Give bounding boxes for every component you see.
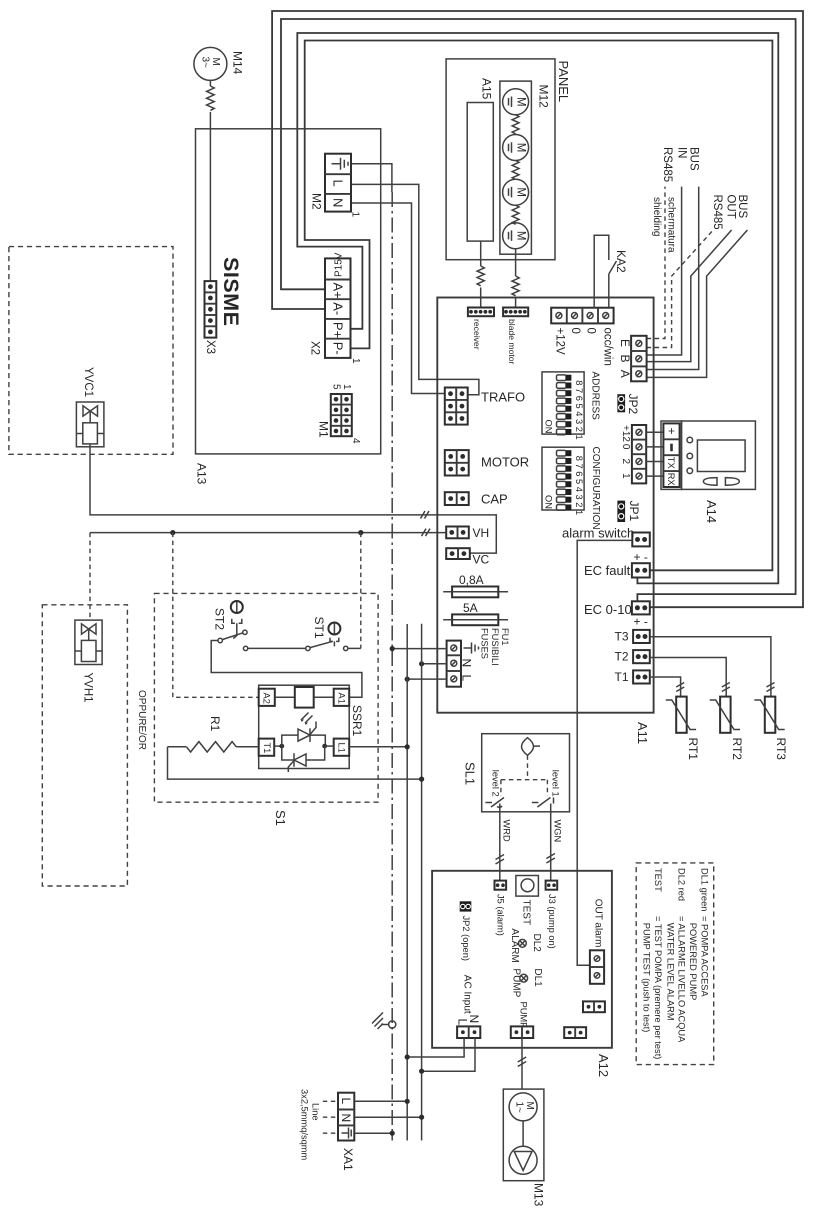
svg-text:level 1: level 1 — [550, 770, 560, 797]
junction node ST right — [358, 530, 363, 535]
solenoid valve YVH1 — [75, 620, 102, 664]
wires +12 0 2 1 to A14 — [646, 432, 663, 476]
break marks RT3 — [767, 683, 775, 692]
svg-text:M: M — [515, 143, 527, 153]
wire — [515, 298, 517, 308]
svg-text:3: 3 — [574, 419, 584, 424]
svg-text:SL1: SL1 — [463, 762, 478, 785]
svg-text:5: 5 — [574, 479, 584, 484]
svg-text:P+: P+ — [331, 322, 346, 338]
junction — [405, 677, 410, 682]
svg-text:J5 (alarm): J5 (alarm) — [495, 894, 505, 936]
triac bridge — [274, 722, 334, 773]
svg-text:DL2: DL2 — [531, 934, 542, 953]
legend line DL1 — [688, 868, 709, 1000]
wire ST2 to ST1 — [248, 647, 306, 649]
svg-text:B: B — [618, 355, 632, 363]
junction — [419, 1069, 424, 1074]
terminal block M2 — [325, 154, 351, 212]
svg-text:= ALLARME LIVELLO ACQUA: = ALLARME LIVELLO ACQUA — [677, 916, 687, 1043]
connector M1 — [331, 394, 352, 436]
wire ST2 pivot to A1 — [211, 641, 362, 698]
svg-text:+12V: +12V — [554, 328, 566, 356]
connector OUT alarm — [590, 950, 604, 984]
svg-text:7: 7 — [574, 388, 584, 393]
connector T1 — [633, 670, 650, 683]
svg-text:M: M — [210, 58, 221, 66]
svg-text:= TEST POMPA (premere per test: = TEST POMPA (premere per test) — [653, 916, 663, 1059]
svg-text:1~: 1~ — [514, 1102, 525, 1114]
connector MOTOR — [445, 450, 469, 475]
svg-text:1: 1 — [620, 473, 631, 479]
label BUS IN RS485 — [661, 147, 699, 182]
svg-text:JP2: JP2 — [626, 394, 640, 415]
svg-text:+: + — [665, 428, 679, 435]
svg-text:DL1: DL1 — [532, 968, 543, 987]
connector X3 — [205, 281, 217, 338]
terminal XA1 — [338, 1093, 354, 1141]
coil on M14 wire — [207, 86, 215, 110]
svg-text:= POMPA ACCESA: = POMPA ACCESA — [699, 916, 709, 997]
motor M14 — [194, 47, 227, 80]
svg-text:OPPURE/OR: OPPURE/OR — [136, 690, 147, 750]
connector +12V 0 0 occ/win — [551, 308, 613, 324]
svg-text:FUSES: FUSES — [480, 628, 490, 659]
board A11 — [437, 298, 653, 713]
wire B to BUS IN — [647, 187, 682, 355]
coil link 1 — [512, 115, 519, 134]
wire N line to N input — [422, 663, 447, 665]
svg-text:P15V: P15V — [334, 252, 345, 277]
solid state relay SSR1 — [259, 685, 350, 768]
svg-text:CAP: CAP — [481, 492, 508, 507]
break marks on VH wire — [422, 529, 431, 537]
break marks WGN — [546, 854, 555, 864]
junction — [419, 777, 424, 782]
wire A to BUS IN — [647, 187, 699, 370]
motor 2 of M12 — [503, 135, 529, 161]
svg-text:ALARM: ALARM — [509, 928, 520, 962]
svg-text:E: E — [618, 339, 632, 347]
jumper JP2 open — [460, 901, 472, 911]
svg-text:EC fault: EC fault — [584, 563, 631, 578]
wire M2 L to TRAFO — [351, 184, 479, 394]
svg-text:VH: VH — [473, 526, 490, 540]
svg-text:L: L — [460, 675, 474, 682]
dashed drop right to ST1 — [360, 533, 362, 649]
connector J5 — [495, 881, 507, 890]
svg-text:RS485: RS485 — [661, 147, 673, 182]
wire XA1 N to N line — [354, 1116, 421, 1118]
pump M13 — [503, 1089, 544, 1181]
svg-text:schermatura: schermatura — [666, 197, 677, 253]
svg-text:JP2 (open): JP2 (open) — [461, 916, 471, 961]
svg-text:PANEL: PANEL — [556, 61, 571, 103]
svg-text:5: 5 — [331, 384, 342, 390]
svg-text:POWERED PUMP: POWERED PUMP — [688, 923, 698, 1000]
svg-text:A13: A13 — [195, 463, 209, 485]
motor 1 of M12 — [503, 89, 529, 115]
motor 3 of M12 — [503, 179, 529, 205]
remote control A14 body — [682, 421, 756, 489]
junction — [419, 661, 424, 666]
svg-text:0: 0 — [620, 444, 631, 450]
svg-text:M14: M14 — [231, 51, 245, 75]
svg-text:1: 1 — [574, 510, 584, 515]
svg-text:RT2: RT2 — [730, 738, 744, 761]
junction — [405, 1099, 410, 1104]
LED DL2 — [519, 939, 527, 947]
svg-text:A1: A1 — [337, 693, 347, 704]
svg-text:ST2: ST2 — [213, 608, 227, 630]
thermostat ST2 — [218, 601, 248, 651]
svg-text:0,8A: 0,8A — [459, 573, 484, 587]
connector E B A — [631, 336, 647, 382]
connector PUMP — [511, 1026, 533, 1038]
svg-text:blade motor: blade motor — [507, 319, 517, 365]
connector receiver — [468, 308, 494, 317]
svg-text:EC 0-10: EC 0-10 — [584, 602, 632, 617]
chassis earth dash-dot line — [391, 192, 393, 1141]
svg-text:T3: T3 — [615, 630, 629, 644]
svg-text:L: L — [331, 180, 346, 187]
svg-text:1: 1 — [574, 435, 584, 440]
wire XA1 earth to chassis — [354, 1132, 392, 1134]
svg-text:MOTOR: MOTOR — [481, 455, 529, 470]
svg-text:BUS: BUS — [688, 147, 700, 171]
svg-text:M: M — [515, 187, 527, 197]
L distribution line — [406, 624, 408, 1141]
svg-text:YVH1: YVH1 — [82, 673, 94, 703]
switch level 1 — [532, 798, 554, 812]
svg-text:PUMP: PUMP — [518, 1002, 528, 1029]
svg-text:occ/win: occ/win — [602, 328, 614, 366]
wire R1 to N line — [168, 747, 422, 779]
wire M12 to blade motor connector — [515, 249, 517, 276]
svg-text:RX: RX — [666, 473, 676, 486]
float symbol — [522, 738, 541, 756]
wire loop X2 A+ to EC 0-10 — [281, 19, 796, 606]
svg-text:3~: 3~ — [200, 57, 211, 69]
chassis ground symbol — [372, 1013, 396, 1030]
label schermatura shielding — [651, 197, 677, 253]
svg-text:4: 4 — [574, 487, 584, 492]
svg-text:A15: A15 — [480, 78, 494, 100]
junction node ST left — [170, 530, 175, 535]
svg-text:BUS: BUS — [736, 195, 748, 219]
junction — [390, 1131, 395, 1136]
svg-text:DL1 green: DL1 green — [699, 868, 709, 911]
junction — [405, 1054, 410, 1059]
wire PUMP to M13 — [521, 1038, 523, 1089]
svg-text:3x2,5mmq/sqmm: 3x2,5mmq/sqmm — [299, 1089, 309, 1161]
connector J3 — [546, 881, 558, 890]
svg-text:6: 6 — [574, 396, 584, 401]
wire loop X2 P- to EC fault — [305, 41, 773, 571]
coil link 2 — [512, 161, 519, 180]
dashed drop to YVH1 — [89, 533, 91, 621]
svg-text:WRD: WRD — [501, 820, 511, 842]
svg-text:L: L — [339, 1098, 353, 1105]
svg-text:5: 5 — [574, 404, 584, 409]
terminal T1 — [259, 739, 275, 756]
switch level 2 — [485, 798, 504, 812]
wire M2 earth to chassis line — [351, 164, 392, 192]
resistor R1 — [168, 742, 259, 752]
wire A to BUS OUT — [647, 230, 748, 377]
board A13 — [196, 129, 381, 454]
svg-text:6: 6 — [574, 471, 584, 476]
wire N line to AC input N — [422, 1038, 475, 1071]
svg-text:A: A — [618, 370, 632, 378]
wire L line to L input — [407, 678, 446, 680]
svg-text:+ -: + - — [634, 550, 648, 564]
relay box S1 dashed — [154, 593, 378, 802]
legend line TEST — [642, 868, 663, 1059]
solenoid valve YVC1 — [76, 402, 104, 447]
connector VC — [446, 548, 470, 559]
dip switch ADDRESS — [542, 372, 584, 440]
svg-text:M2: M2 — [310, 193, 324, 210]
svg-text:PUMP TEST (push to test): PUMP TEST (push to test) — [642, 923, 652, 1033]
valve YVH1 dashed enclosure — [42, 605, 127, 886]
connector T3 — [633, 630, 650, 643]
panel box — [446, 59, 555, 260]
svg-text:1: 1 — [341, 384, 352, 390]
svg-text:2: 2 — [574, 427, 584, 432]
dashed float linkage — [501, 755, 548, 796]
svg-text:2: 2 — [620, 459, 631, 465]
wire E to BUS OUT shield (dashed) — [647, 230, 714, 348]
svg-text:level 2: level 2 — [490, 770, 500, 797]
svg-text:AC Input: AC Input — [461, 975, 472, 1014]
svg-text:M1: M1 — [317, 421, 331, 438]
wire L line to AC input L — [407, 1038, 464, 1057]
label FU1 FUSIBILI FUSES — [480, 628, 511, 666]
svg-text:N: N — [331, 198, 346, 207]
wire YVC1 to VC — [90, 444, 496, 553]
svg-text:+12: +12 — [620, 425, 631, 442]
svg-text:L1: L1 — [337, 743, 347, 753]
svg-text:receiver: receiver — [472, 319, 482, 350]
break marks RT2 — [722, 683, 730, 692]
break marks RT1 — [676, 683, 684, 692]
wire T2 to RT2 — [650, 658, 726, 697]
coil link 3 — [512, 205, 519, 224]
wire T1 to RT1 — [650, 677, 681, 697]
thermostat ST1 — [306, 623, 361, 651]
wire alarm switch to OUT alarm — [577, 540, 632, 965]
svg-text:alarm switch: alarm switch — [562, 526, 634, 541]
coil indicator — [275, 687, 334, 708]
terminal A1 — [334, 689, 350, 706]
svg-text:RT3: RT3 — [774, 738, 788, 761]
wire YVH1 ST line to VH — [90, 532, 446, 534]
svg-text:A2: A2 — [262, 693, 272, 704]
svg-text:M: M — [515, 97, 527, 107]
svg-text:1: 1 — [350, 212, 361, 218]
connector blade motor — [503, 308, 528, 317]
svg-text:A11: A11 — [635, 722, 650, 744]
junction — [419, 1115, 424, 1120]
connector AC input L N — [457, 1026, 480, 1038]
svg-text:+ -: + - — [634, 615, 648, 629]
svg-text:M13: M13 — [532, 1183, 546, 1207]
thermistor RT3 — [754, 697, 784, 733]
opto LED arrows — [301, 713, 313, 726]
svg-text:1: 1 — [350, 358, 361, 364]
label BUS OUT RS485 — [711, 195, 748, 230]
jumper JP2 — [617, 394, 625, 412]
svg-text:X2: X2 — [309, 341, 321, 355]
svg-text:0: 0 — [569, 328, 581, 334]
coil on A15 wire — [477, 266, 484, 286]
svg-text:2: 2 — [574, 502, 584, 507]
relay contact KA2 — [594, 235, 616, 308]
svg-text:Line: Line — [310, 1103, 320, 1121]
svg-text:TRAFO: TRAFO — [481, 390, 525, 405]
connector alarm switch — [632, 533, 650, 547]
fuse 5A — [443, 614, 508, 625]
svg-text:RT1: RT1 — [686, 738, 700, 761]
svg-text:A+: A+ — [331, 283, 346, 299]
svg-text:KA2: KA2 — [614, 250, 628, 273]
terminal block X2 — [325, 252, 351, 358]
connector T2 — [633, 650, 650, 663]
connector AC in earth N L — [447, 641, 461, 687]
svg-text:3: 3 — [574, 495, 584, 500]
wire chassis to earth input — [392, 648, 446, 650]
svg-text:TX: TX — [666, 457, 676, 469]
svg-text:FU1: FU1 — [500, 628, 510, 646]
svg-text:7: 7 — [574, 464, 584, 469]
svg-text:X3: X3 — [204, 340, 216, 354]
svg-text:SISME: SISME — [219, 257, 243, 326]
svg-text:ON: ON — [544, 495, 554, 509]
thermistor RT2 — [710, 697, 740, 733]
level sensor SL1 — [482, 734, 570, 812]
connector aux 2 — [564, 1027, 586, 1038]
svg-text:DL2 red: DL2 red — [677, 868, 687, 901]
remote control A14 terminal strip — [661, 421, 682, 489]
legend line DL2 — [665, 868, 686, 1043]
svg-text:M: M — [515, 231, 527, 241]
connector CAP — [445, 492, 469, 505]
wire M14 to X3 — [209, 80, 211, 86]
dashed supply leads — [323, 1101, 338, 1133]
svg-text:OUT: OUT — [724, 195, 736, 219]
svg-text:8: 8 — [574, 456, 584, 461]
svg-text:JP1: JP1 — [627, 501, 641, 522]
wire A15 to receiver — [480, 241, 482, 266]
wire M2 N to TRAFO — [351, 203, 445, 394]
svg-text:FUSIBILI: FUSIBILI — [490, 628, 500, 666]
svg-text:N: N — [460, 659, 474, 668]
svg-text:T2: T2 — [615, 650, 629, 664]
svg-text:M12: M12 — [537, 85, 551, 109]
svg-text:ADDRESS: ADDRESS — [590, 372, 601, 421]
earth symbol at input — [464, 643, 479, 654]
svg-text:ON: ON — [544, 420, 554, 434]
wire loop X2 P+ to EC fault — [297, 33, 778, 583]
svg-text:TEST: TEST — [653, 868, 663, 892]
pump board A12 — [432, 871, 612, 1048]
terminal A2 — [259, 689, 275, 706]
connector +12 0 2 1 — [632, 425, 646, 483]
connector EC 0-10 — [632, 601, 650, 614]
thermistor RT1 — [666, 697, 696, 733]
coil on M12 wire — [512, 276, 519, 296]
wire — [480, 288, 482, 308]
svg-text:N: N — [339, 1114, 353, 1123]
valve YVC1 dashed enclosure — [9, 247, 173, 455]
display board A15 — [467, 103, 493, 242]
svg-text:T1: T1 — [262, 743, 272, 754]
svg-text:4: 4 — [574, 411, 584, 416]
TEST button — [516, 876, 539, 897]
svg-text:P-: P- — [331, 342, 346, 355]
wire WRD — [499, 812, 501, 881]
motor 4 of M12 — [503, 223, 529, 249]
svg-text:XA1: XA1 — [341, 1148, 355, 1171]
wire T3 to RT3 — [650, 637, 771, 697]
svg-text:shielding: shielding — [651, 197, 662, 236]
svg-text:WATER LEVEL ALARM: WATER LEVEL ALARM — [665, 923, 675, 1021]
svg-text:S1: S1 — [273, 810, 288, 826]
svg-text:0: 0 — [584, 328, 596, 334]
svg-text:M: M — [524, 1102, 535, 1110]
connector EC fault — [632, 563, 650, 577]
terminal L1 — [334, 739, 350, 756]
svg-text:WGN: WGN — [552, 820, 562, 843]
connector VH — [446, 527, 469, 539]
svg-text:A12: A12 — [596, 1054, 611, 1077]
dashed drop left to A2 — [173, 533, 259, 698]
wire — [209, 112, 211, 281]
svg-text:ST1: ST1 — [312, 617, 326, 639]
legend dashed box — [636, 863, 714, 1065]
svg-text:T1: T1 — [615, 670, 629, 684]
jumper JP1 — [617, 501, 625, 522]
svg-text:N: N — [467, 1015, 481, 1024]
svg-text:CONFIGURATION: CONFIGURATION — [590, 447, 601, 530]
break marks WRD — [496, 855, 505, 865]
svg-text:PUMP: PUMP — [510, 968, 521, 997]
wire loop X2 A- to EC 0-10 (outer frame) — [272, 11, 803, 607]
connector TRAFO — [445, 388, 468, 425]
break marks pump wire — [518, 1057, 527, 1067]
svg-text:A14: A14 — [704, 500, 719, 523]
dip switch CONFIGURATION — [542, 447, 584, 515]
svg-text:RS485: RS485 — [711, 195, 723, 230]
svg-text:VC: VC — [473, 553, 490, 567]
svg-text:IN: IN — [676, 147, 688, 159]
svg-text:YVC1: YVC1 — [82, 367, 94, 397]
connector aux 1 — [583, 1001, 605, 1012]
wire XA1 L to L line — [354, 1100, 407, 1102]
LED DL1 — [520, 974, 528, 982]
svg-text:4: 4 — [350, 438, 361, 444]
svg-text:5A: 5A — [463, 601, 478, 615]
blade motor group M12 — [500, 81, 532, 254]
wire E to BUS IN shield (dashed) — [647, 187, 665, 339]
fuse 0,8A — [443, 587, 508, 598]
svg-text:8: 8 — [574, 380, 584, 385]
junction — [405, 744, 410, 749]
break marks on YVC1 wire — [421, 511, 430, 519]
wire L1 to L line — [349, 746, 407, 748]
N distribution line — [421, 624, 423, 1141]
